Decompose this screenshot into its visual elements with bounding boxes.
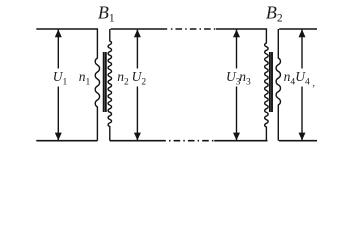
transformer B1 core bar right xyxy=(105,52,107,112)
arrowhead U4 top xyxy=(299,29,306,37)
arrowhead U4 bottom xyxy=(299,133,306,141)
arrowhead U3 bottom xyxy=(233,133,240,141)
wire bottom rail left segment xyxy=(36,140,97,142)
voltage arrow line U4 xyxy=(301,30,303,141)
voltage arrow line U2 xyxy=(136,30,138,141)
arrowhead U2 top xyxy=(134,29,141,37)
arrowhead U3 top xyxy=(233,29,240,37)
transformer B2 core bar left xyxy=(269,52,271,112)
voltage arrow line U3 xyxy=(236,30,238,141)
wire top rail left segment xyxy=(36,28,98,30)
wire top rail right segment xyxy=(279,28,317,30)
wire top rail middle solid right part xyxy=(216,28,267,30)
wire bottom rail middle solid left part xyxy=(110,140,166,142)
transformer B2 secondary winding n4 xyxy=(276,29,280,141)
transformer B1 primary winding n1 xyxy=(95,29,99,141)
transformer B1 core bar left xyxy=(103,52,105,112)
wire bottom rail right segment xyxy=(279,140,317,142)
transformer B2 core bar right xyxy=(271,52,273,112)
arrowhead U2 bottom xyxy=(134,133,141,141)
svg-text:,: , xyxy=(313,78,316,89)
transformer B1 secondary winding n2 xyxy=(108,29,111,141)
wire bottom rail middle solid right part xyxy=(214,140,267,142)
transformer B2 primary winding n3 xyxy=(265,29,268,141)
wire bottom rail middle dash-dot chain xyxy=(169,140,214,142)
wire top rail middle dash-dot chain xyxy=(171,28,216,30)
arrowhead U1 top xyxy=(55,29,62,37)
voltage arrow line U1 xyxy=(57,30,59,141)
wire top rail middle solid left part xyxy=(111,28,168,30)
arrowhead U1 bottom xyxy=(55,133,62,141)
